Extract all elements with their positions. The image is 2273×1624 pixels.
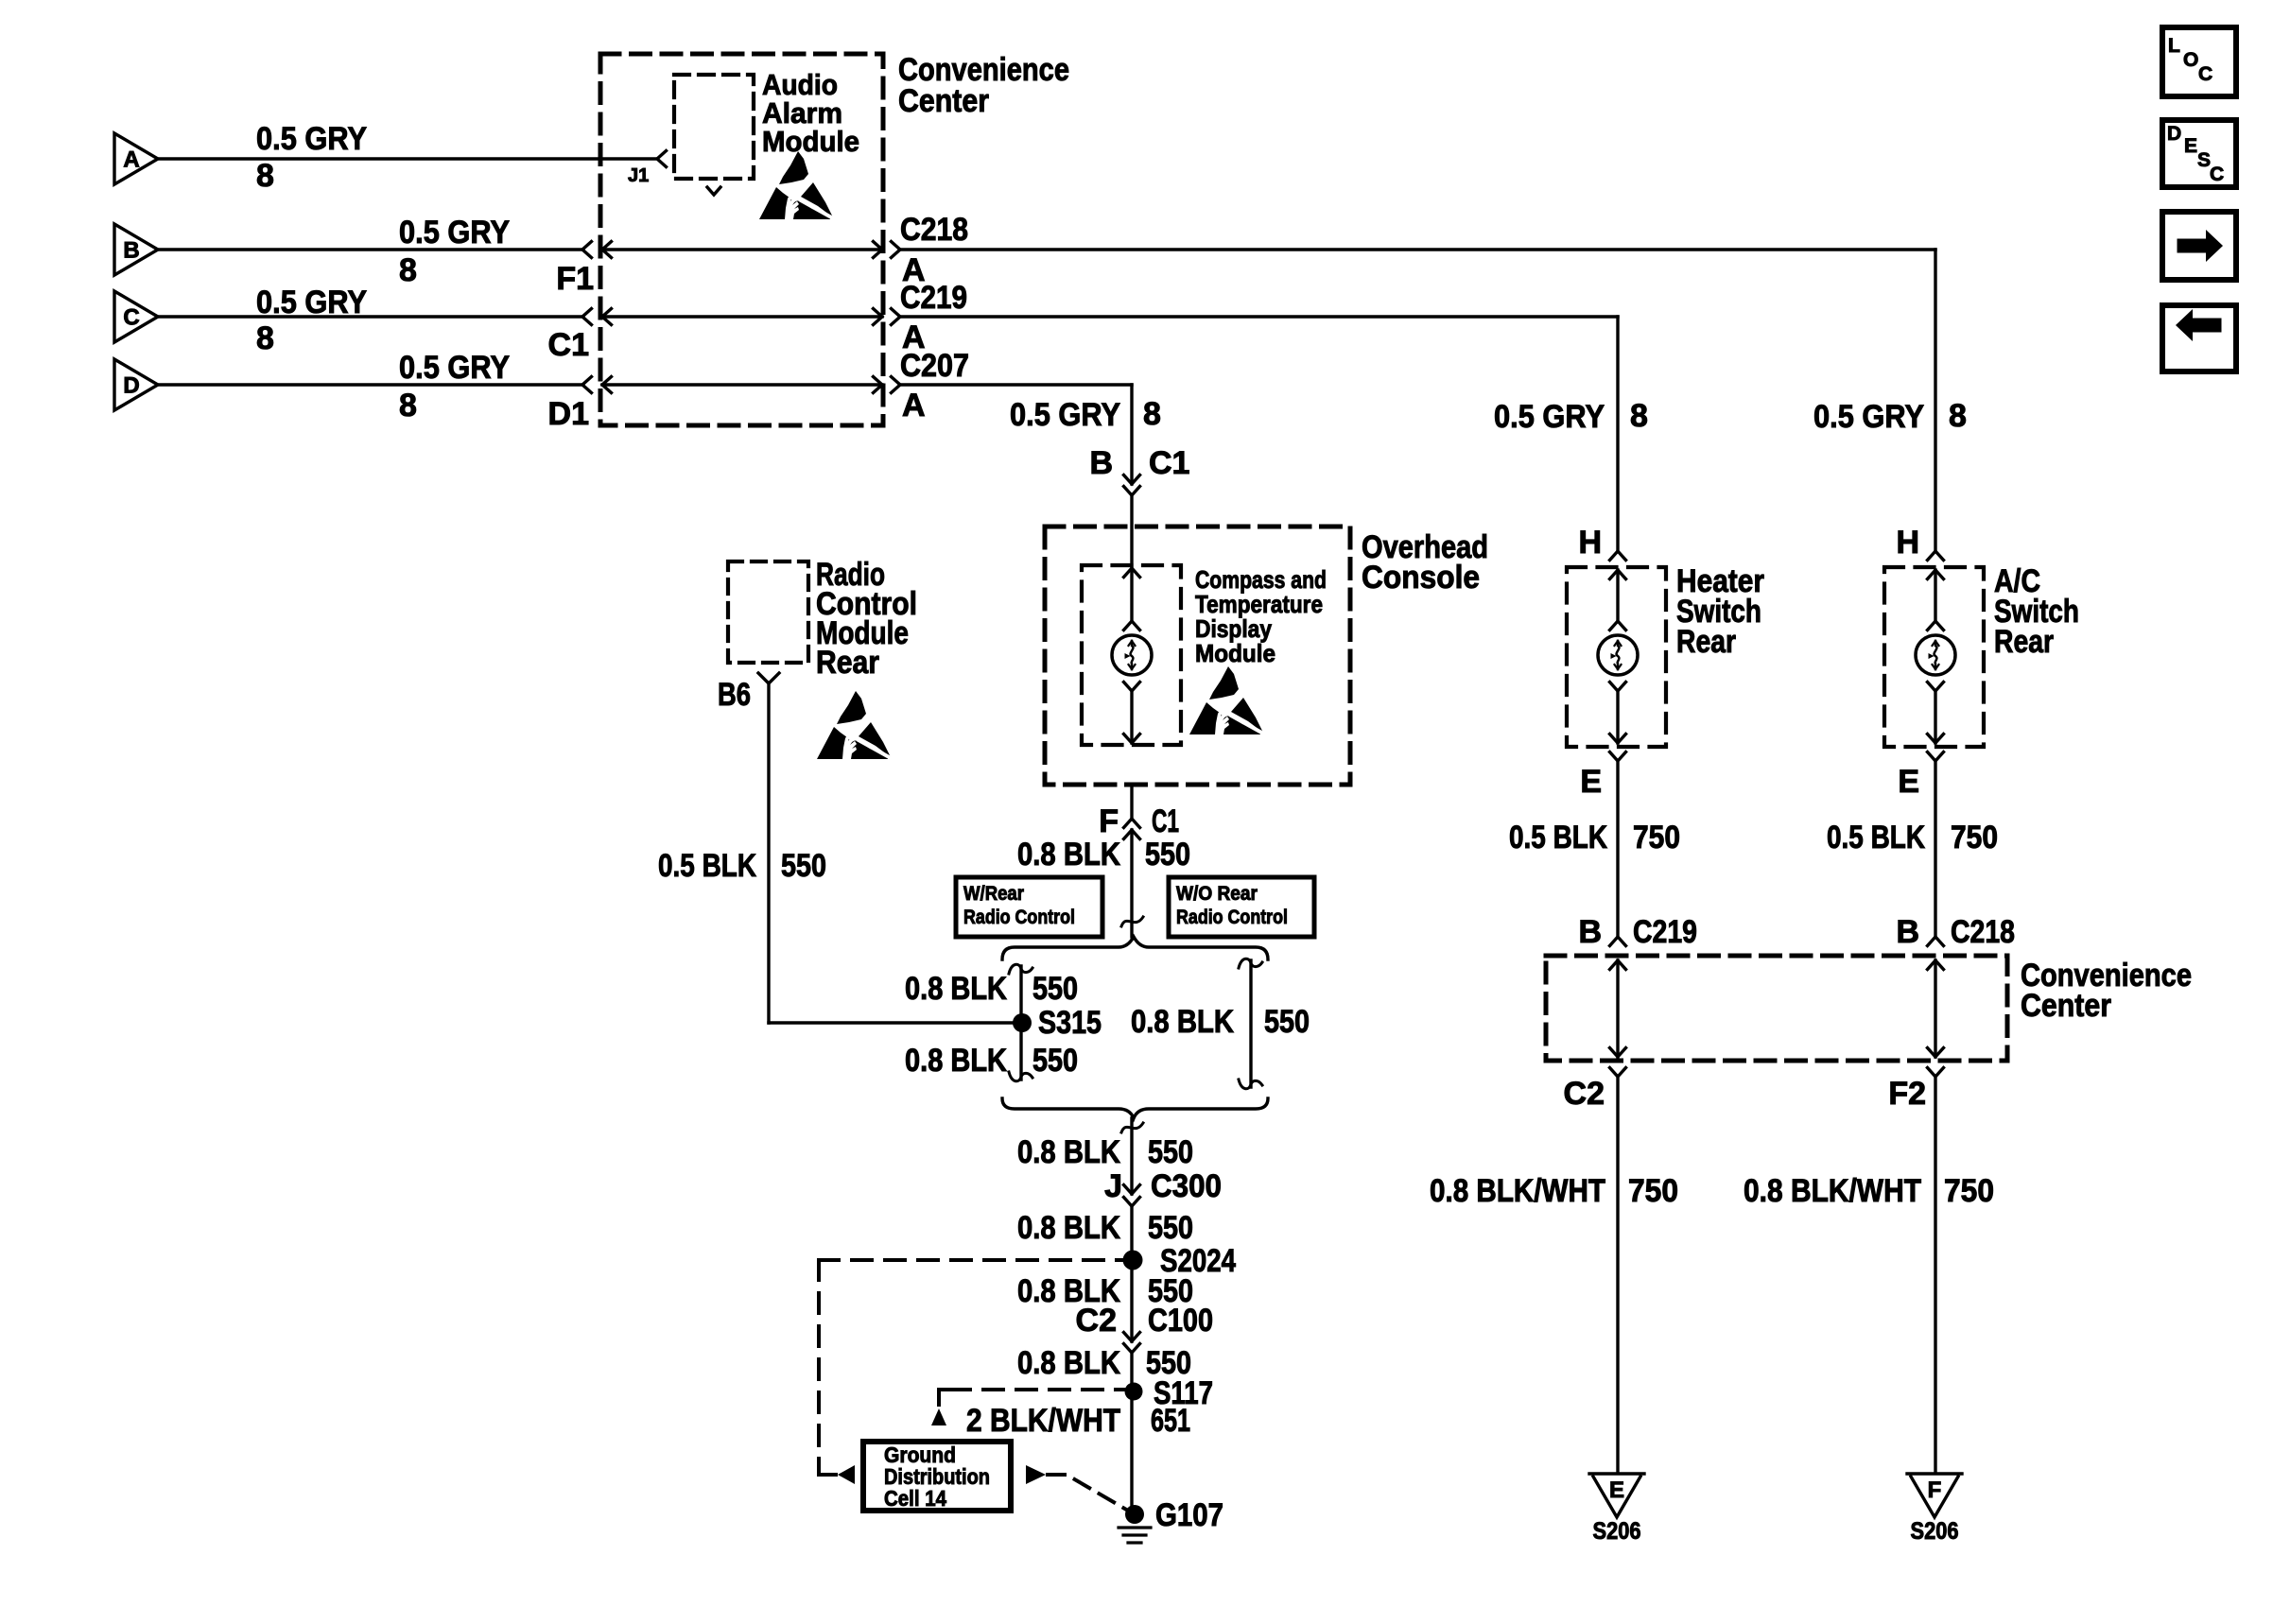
svg-text:Module: Module bbox=[762, 125, 859, 158]
svg-text:0.8 BLK/WHT: 0.8 BLK/WHT bbox=[1744, 1173, 1921, 1209]
svg-text:0.5 GRY: 0.5 GRY bbox=[256, 285, 367, 320]
svg-text:E: E bbox=[1898, 764, 1919, 800]
svg-text:D1: D1 bbox=[548, 396, 589, 432]
svg-text:C: C bbox=[2210, 164, 2224, 185]
svg-text:0.8 BLK: 0.8 BLK bbox=[1017, 1345, 1120, 1381]
svg-text:0.8 BLK: 0.8 BLK bbox=[1131, 1004, 1234, 1040]
svg-text:0.5 GRY: 0.5 GRY bbox=[399, 215, 510, 251]
svg-text:8: 8 bbox=[1949, 398, 1967, 434]
svg-text:8: 8 bbox=[399, 388, 417, 423]
svg-text:S206: S206 bbox=[1593, 1518, 1641, 1545]
svg-text:550: 550 bbox=[1148, 1134, 1193, 1170]
svg-text:L: L bbox=[2168, 35, 2180, 57]
svg-text:8: 8 bbox=[256, 320, 274, 356]
svg-text:0.5 GRY: 0.5 GRY bbox=[1813, 399, 1924, 435]
svg-text:B: B bbox=[1896, 914, 1919, 950]
svg-text:S: S bbox=[2197, 149, 2211, 171]
svg-text:W/O Rear: W/O Rear bbox=[1176, 883, 1258, 905]
svg-text:J1: J1 bbox=[628, 165, 649, 186]
svg-text:S206: S206 bbox=[1911, 1518, 1959, 1545]
svg-text:E: E bbox=[1609, 1477, 1624, 1503]
svg-text:Rear: Rear bbox=[1994, 624, 2054, 660]
svg-text:S315: S315 bbox=[1038, 1005, 1102, 1041]
svg-text:C1: C1 bbox=[1149, 445, 1189, 481]
svg-text:B6: B6 bbox=[718, 677, 751, 713]
svg-text:750: 750 bbox=[1628, 1173, 1678, 1209]
svg-text:F: F bbox=[1099, 803, 1119, 839]
svg-text:550: 550 bbox=[1145, 837, 1190, 872]
svg-text:550: 550 bbox=[1032, 971, 1078, 1007]
svg-text:651: 651 bbox=[1151, 1403, 1190, 1439]
svg-text:H: H bbox=[1578, 525, 1602, 561]
svg-text:Console: Console bbox=[1362, 560, 1480, 596]
svg-text:0.5 BLK: 0.5 BLK bbox=[658, 848, 756, 884]
svg-text:0.5 GRY: 0.5 GRY bbox=[256, 121, 367, 157]
svg-text:0.8 BLK: 0.8 BLK bbox=[905, 1043, 1007, 1079]
svg-text:J: J bbox=[1104, 1168, 1122, 1204]
svg-text:0.5 GRY: 0.5 GRY bbox=[399, 350, 510, 386]
svg-text:B: B bbox=[123, 238, 139, 264]
svg-text:O: O bbox=[2183, 49, 2198, 71]
svg-text:C219: C219 bbox=[900, 280, 967, 316]
svg-text:G107: G107 bbox=[1155, 1497, 1223, 1533]
svg-text:Center: Center bbox=[898, 83, 989, 119]
svg-text:2 BLK/WHT: 2 BLK/WHT bbox=[966, 1403, 1120, 1439]
svg-text:C218: C218 bbox=[900, 212, 968, 248]
svg-text:C2: C2 bbox=[1564, 1076, 1605, 1112]
svg-text:750: 750 bbox=[1633, 820, 1680, 855]
svg-text:C2: C2 bbox=[1076, 1303, 1117, 1339]
svg-text:C218: C218 bbox=[1951, 914, 2015, 950]
svg-text:550: 550 bbox=[781, 848, 826, 884]
svg-text:0.8 BLK/WHT: 0.8 BLK/WHT bbox=[1430, 1173, 1605, 1209]
svg-text:Rear: Rear bbox=[1676, 624, 1736, 660]
svg-text:C1: C1 bbox=[1152, 803, 1179, 839]
svg-text:C: C bbox=[2198, 63, 2212, 85]
svg-text:E: E bbox=[1580, 764, 1602, 800]
svg-text:Module: Module bbox=[1195, 639, 1275, 667]
svg-text:F: F bbox=[1928, 1477, 1942, 1503]
svg-text:750: 750 bbox=[1951, 820, 1998, 855]
svg-text:0.5 BLK: 0.5 BLK bbox=[1509, 820, 1607, 855]
svg-text:8: 8 bbox=[399, 252, 417, 288]
svg-text:0.8 BLK: 0.8 BLK bbox=[905, 971, 1007, 1007]
svg-text:Center: Center bbox=[2021, 988, 2111, 1024]
svg-text:0.5 GRY: 0.5 GRY bbox=[1010, 397, 1120, 433]
svg-text:F1: F1 bbox=[556, 261, 594, 297]
svg-text:C: C bbox=[123, 305, 139, 331]
svg-text:D: D bbox=[123, 373, 139, 399]
svg-text:0.8 BLK: 0.8 BLK bbox=[1017, 1134, 1120, 1170]
svg-text:Radio Control: Radio Control bbox=[1176, 907, 1288, 928]
svg-text:D: D bbox=[2167, 123, 2181, 145]
svg-text:C300: C300 bbox=[1151, 1168, 1222, 1204]
svg-text:8: 8 bbox=[256, 158, 274, 194]
svg-text:C219: C219 bbox=[1633, 914, 1697, 950]
svg-text:0.5 BLK: 0.5 BLK bbox=[1827, 820, 1925, 855]
svg-text:550: 550 bbox=[1148, 1210, 1193, 1246]
svg-text:0.8 BLK: 0.8 BLK bbox=[1017, 837, 1120, 872]
svg-text:Radio Control: Radio Control bbox=[963, 907, 1075, 928]
svg-text:F2: F2 bbox=[1888, 1076, 1926, 1112]
svg-text:B: B bbox=[1089, 445, 1113, 481]
svg-text:H: H bbox=[1896, 525, 1919, 561]
svg-text:C1: C1 bbox=[548, 327, 589, 363]
svg-text:E: E bbox=[2184, 135, 2197, 157]
svg-text:8: 8 bbox=[1630, 398, 1648, 434]
svg-text:Cell 14: Cell 14 bbox=[884, 1486, 946, 1511]
svg-text:8: 8 bbox=[1143, 396, 1161, 432]
svg-text:B: B bbox=[1578, 914, 1602, 950]
svg-text:A: A bbox=[123, 147, 139, 173]
svg-text:550: 550 bbox=[1032, 1043, 1078, 1079]
svg-text:750: 750 bbox=[1944, 1173, 1994, 1209]
svg-text:C100: C100 bbox=[1148, 1303, 1213, 1339]
svg-text:0.8 BLK: 0.8 BLK bbox=[1017, 1210, 1120, 1246]
svg-text:W/Rear: W/Rear bbox=[963, 883, 1024, 905]
svg-text:A: A bbox=[902, 388, 926, 423]
svg-text:C207: C207 bbox=[900, 348, 969, 384]
svg-text:0.5 GRY: 0.5 GRY bbox=[1494, 399, 1605, 435]
svg-text:Rear: Rear bbox=[816, 645, 879, 681]
svg-text:550: 550 bbox=[1264, 1004, 1310, 1040]
